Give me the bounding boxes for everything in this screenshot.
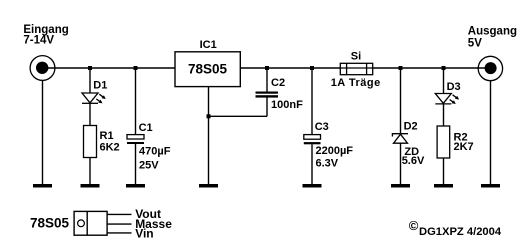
svg-text:C3: C3 [315, 121, 329, 133]
wire C2 bottom down [266, 98, 268, 117]
svg-text:2K7: 2K7 [454, 141, 474, 153]
connector J1 input jack [30, 56, 55, 81]
resistor R1 [84, 126, 97, 158]
pin Vout line [107, 213, 131, 215]
wire D1 to R1 [89, 103, 91, 126]
node junction dot rail x312 [310, 66, 314, 70]
svg-text:D2: D2 [404, 120, 418, 132]
ground D2 [391, 184, 410, 188]
LED D1 [82, 93, 103, 103]
resistor R2 [437, 126, 450, 158]
ground input connector [33, 184, 52, 188]
svg-text:R1: R1 [100, 130, 114, 142]
ground IC1 [199, 184, 218, 188]
ground R1 [81, 184, 100, 188]
wire C3 branch top [311, 68, 313, 135]
capacitor C1 (electrolytic) [127, 135, 144, 144]
ground R2 [434, 184, 453, 188]
svg-text:IC1: IC1 [200, 39, 217, 51]
svg-text:6.3V: 6.3V [316, 157, 339, 169]
wire R1 to ground [89, 158, 91, 186]
svg-text:78S05: 78S05 [188, 62, 228, 77]
ground C3 [303, 184, 322, 188]
wire D3 to R2 [443, 104, 445, 126]
pin Masse line [107, 223, 131, 225]
node junction dot rail x267 [265, 66, 269, 70]
wire main rail left: connector to IC1 [47, 67, 175, 69]
wire D2 branch top [400, 68, 402, 134]
LED D3 [435, 94, 456, 104]
svg-text:7-14V: 7-14V [23, 35, 54, 47]
node junction dot rail x443.5 [442, 66, 446, 70]
svg-text:2200µF: 2200µF [316, 145, 354, 157]
wire output connector down [490, 81, 492, 185]
node junction dot C2/IC1 ground [207, 114, 211, 118]
svg-text:D1: D1 [93, 79, 107, 91]
pin Vin line [107, 232, 131, 234]
svg-text:470µF: 470µF [139, 145, 171, 157]
svg-text:Si: Si [351, 50, 361, 62]
node junction dot rail x400.5 [399, 66, 403, 70]
wire R2 to ground [443, 158, 445, 185]
svg-text:D3: D3 [447, 81, 461, 93]
wire C2 branch top [266, 68, 268, 92]
svg-text:©: © [409, 218, 419, 233]
svg-text:100nF: 100nF [271, 99, 303, 111]
wire main rail middle: IC1 to fuse [240, 67, 340, 69]
ground C1 [126, 184, 145, 188]
capacitor C2 [256, 92, 279, 98]
wire C3 to ground [311, 144, 313, 185]
capacitor C3 (electrolytic) [304, 135, 321, 145]
wire C1 branch top [135, 68, 137, 135]
wire D3 branch top [443, 68, 445, 94]
fuse Si [340, 63, 372, 74]
78S05 package drawing (TO-220 rear view) [74, 211, 131, 235]
svg-text:C2: C2 [271, 77, 285, 89]
wire IC1 ground pin [208, 87, 210, 186]
node junction dot rail x135.5 [134, 66, 138, 70]
wire input connector down [42, 81, 44, 186]
svg-text:Ausgang: Ausgang [468, 25, 517, 37]
svg-text:5V: 5V [468, 38, 482, 50]
op-amp U1 regulator IC1 box [175, 52, 240, 87]
svg-text:5.6V: 5.6V [402, 155, 425, 167]
svg-text:1A Träge: 1A Träge [331, 77, 381, 89]
svg-text:78S05: 78S05 [30, 216, 70, 231]
zener diode D2 [392, 134, 408, 144]
wire main rail right: fuse to output connector [373, 67, 486, 69]
svg-text:Vin: Vin [135, 226, 153, 240]
svg-text:C1: C1 [139, 122, 153, 134]
wire D2 to ground [400, 143, 402, 185]
node junction dot rail x90 [88, 66, 92, 70]
ground output connector [481, 184, 500, 188]
svg-text:25V: 25V [139, 159, 159, 171]
wire C1 to ground [135, 144, 137, 185]
wire D1 branch top [89, 68, 91, 93]
svg-text:6K2: 6K2 [100, 141, 120, 153]
wire C2 bottom to IC1 ground pin [209, 115, 268, 117]
connector J2 output jack [478, 56, 502, 80]
svg-text:DG1XPZ 4/2004: DG1XPZ 4/2004 [419, 226, 502, 238]
